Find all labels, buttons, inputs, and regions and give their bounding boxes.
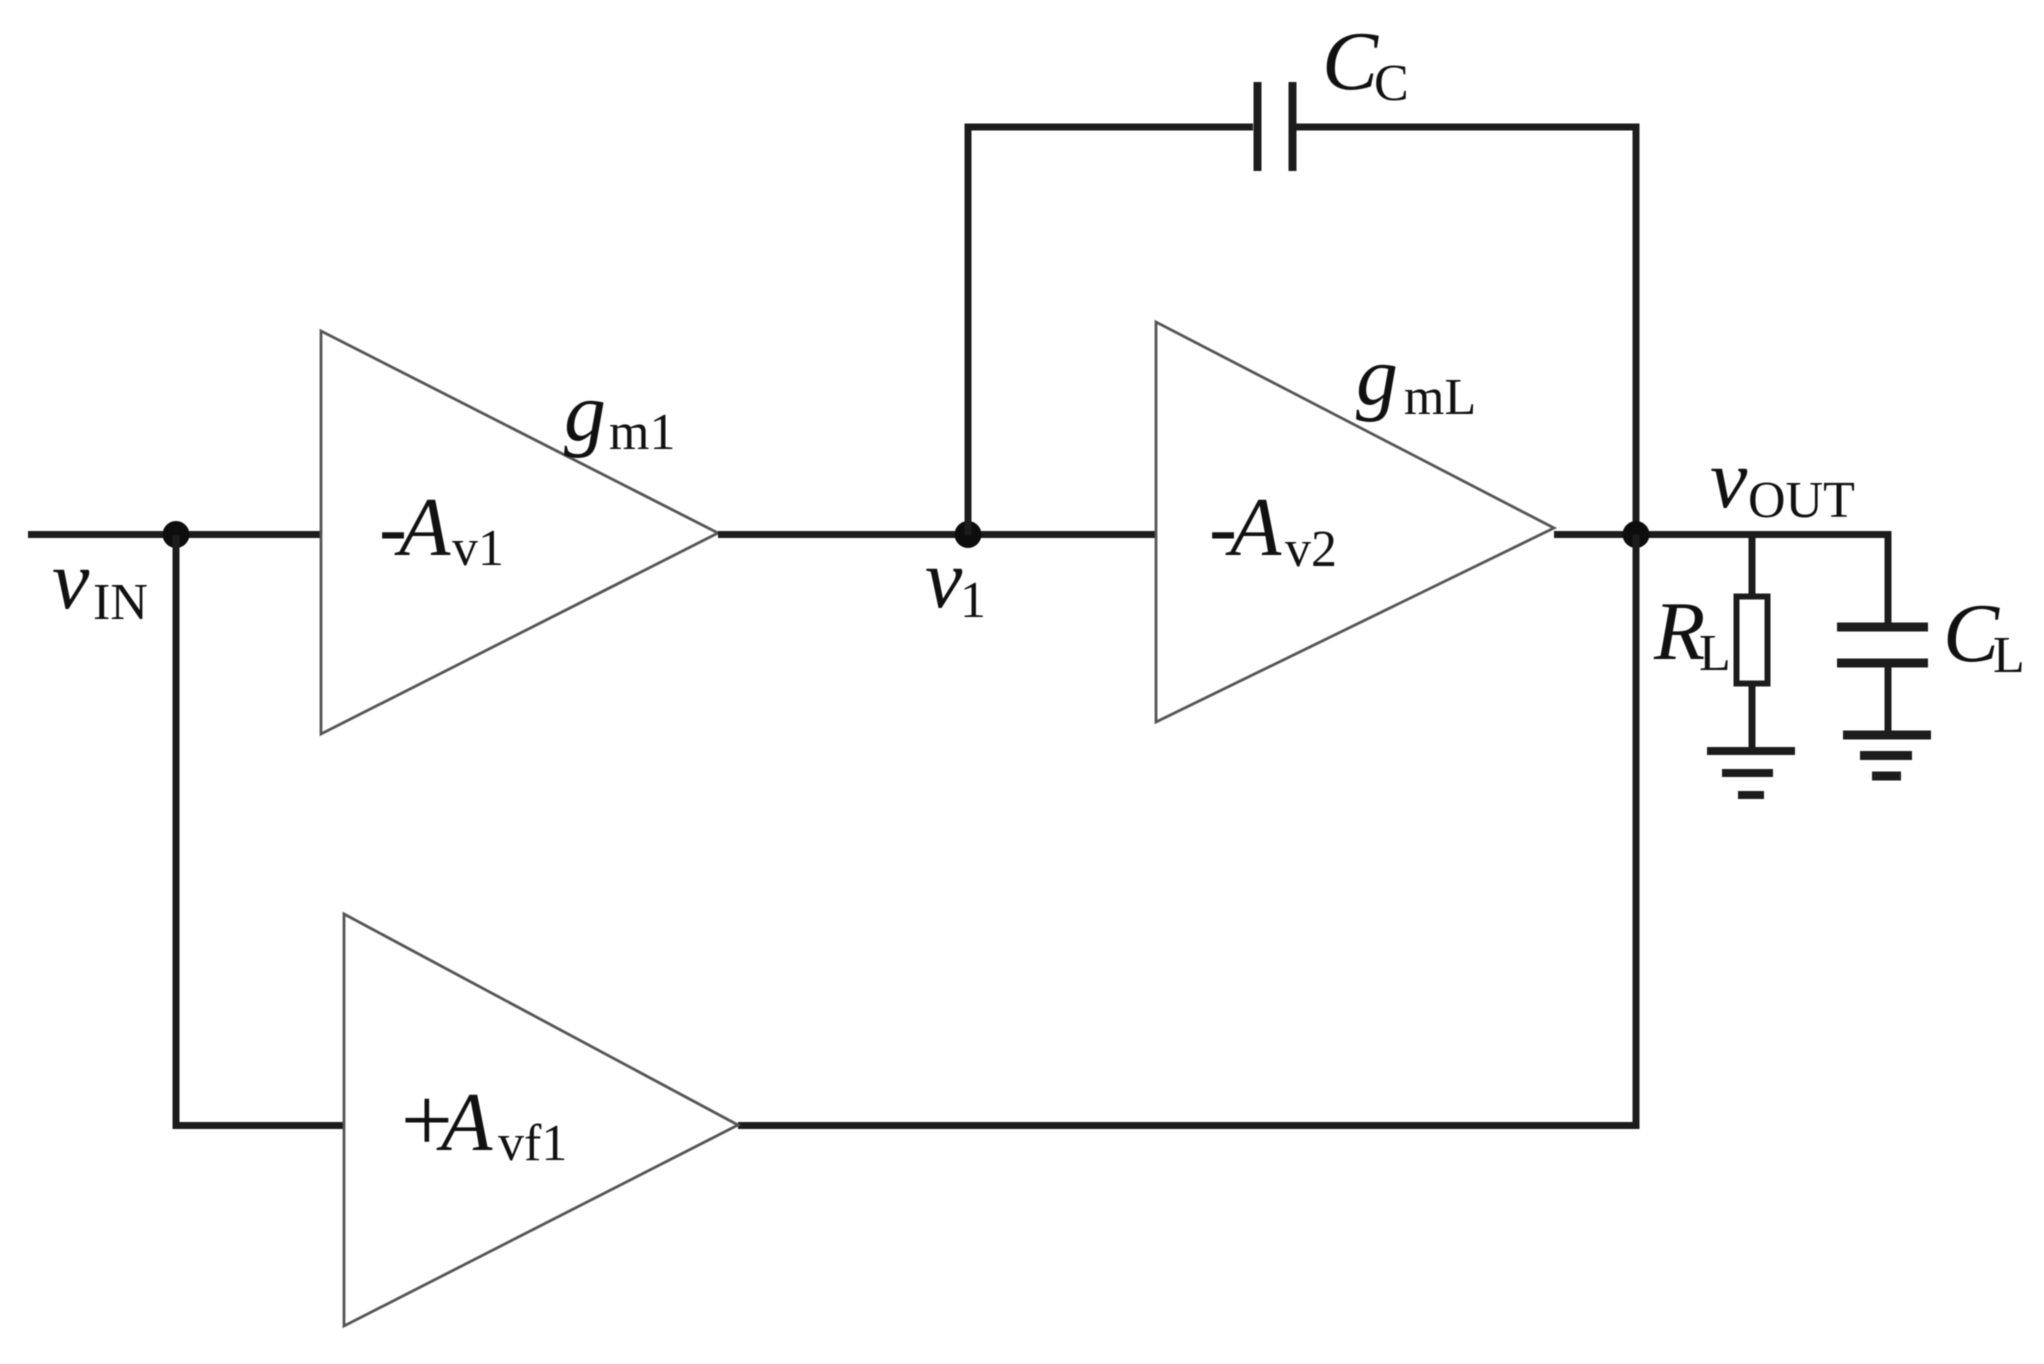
wire: right rail down from output node to bottom rail [1633,535,1640,1130]
wire: amp2 output through vout node to CL branch [1554,531,1888,538]
wire: top rail left of Cc [965,124,1254,131]
wire: amp1 output to amp2 input [718,531,1156,538]
wire: input from left edge to amp1 [28,531,321,538]
op-amp +Avf1 triangle [344,914,738,1326]
wire: CL bottom plate to ground [1885,667,1892,735]
capacitor Cc right plate [1289,82,1297,171]
wire: right rail down from top to output node [1633,127,1640,535]
wire: bottom rail from amp3 output to right rail [738,1122,1640,1129]
op-amp gm1 (-Av1) triangle [321,331,718,734]
op-amp gmL (-Av2) triangle [1156,322,1554,722]
capacitor CL: drop wire from output rail corner [1885,531,1892,627]
node vIN: input node dot [163,521,190,548]
wire: bottom-left horizontal to amp3 input [173,1122,345,1129]
wire: top rail right of Cc [1297,124,1640,131]
resistor RL: stub from output wire [1749,535,1756,597]
node v1 dot [955,521,982,548]
capacitor CL bottom plate [1837,659,1928,668]
capacitor Cc left plate [1254,82,1262,171]
ground (CL) [1843,735,1931,776]
capacitor CL top plate [1837,623,1928,632]
wire: input node down to feedforward row [173,535,180,1126]
ground (RL) [1707,751,1795,795]
wire: RL bottom to ground [1749,684,1756,751]
wire: v1 node up to top rail [965,124,972,535]
resistor RL body [1737,597,1768,684]
node vOUT dot [1623,521,1650,548]
